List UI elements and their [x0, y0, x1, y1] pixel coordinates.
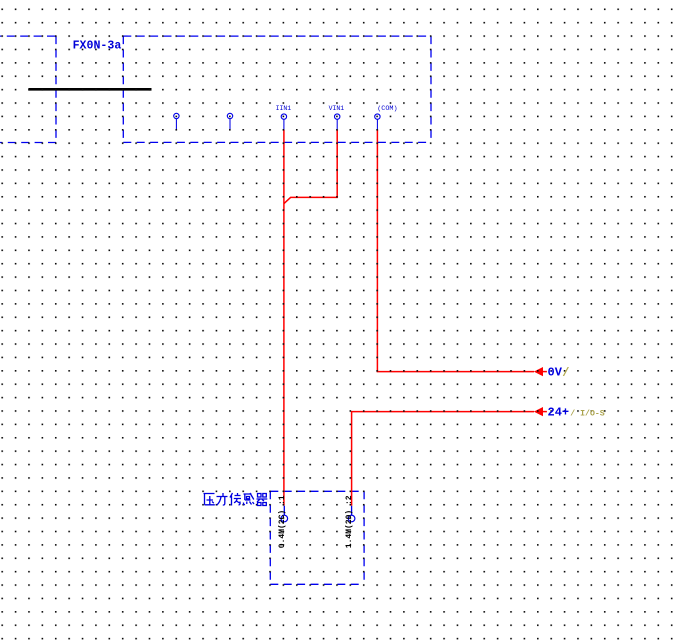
- svg-text:/ I/O-S: / I/O-S: [570, 409, 604, 419]
- wire 24+ to sensor pin 2: [352, 412, 534, 506]
- power port arrow 24+: [534, 407, 547, 416]
- svg-text:0V: 0V: [548, 366, 563, 380]
- pin IIN1: [281, 114, 286, 130]
- pin P2 (unlabeled): [227, 113, 232, 130]
- sensor box 压力传感器: [270, 491, 364, 584]
- svg-text:FX0N-3a: FX0N-3a: [73, 39, 122, 52]
- pin P1 (unlabeled): [174, 113, 179, 130]
- svg-text:0.4M(2C) :1: 0.4M(2C) :1: [278, 495, 287, 548]
- svg-text:(COM): (COM): [377, 105, 397, 113]
- 力: [217, 493, 228, 505]
- 压: [204, 494, 215, 505]
- svg-text:VIN1: VIN1: [329, 105, 345, 112]
- wire VIN1 branch: [284, 130, 337, 204]
- svg-text:IIN1: IIN1: [276, 105, 292, 112]
- wire COM to 0V: [377, 130, 534, 372]
- module box (left, partial): [0, 36, 56, 142]
- sensor pin 1: [281, 506, 288, 522]
- module box FX0N-3a: [123, 36, 431, 142]
- svg-text:/: /: [562, 366, 569, 380]
- power port arrow 0V: [534, 367, 547, 376]
- wire IIN1 to sensor pin 1: [283, 130, 285, 506]
- label 压力传感器 (drawn glyphs): [204, 493, 268, 506]
- 传: [230, 493, 241, 506]
- sensor pin 2: [348, 506, 355, 522]
- 感: [243, 493, 254, 505]
- svg-text:1.4M(20) :2: 1.4M(20) :2: [345, 495, 354, 548]
- pin VIN1: [335, 114, 340, 130]
- svg-text:24+: 24+: [548, 406, 570, 420]
- pin COM: [375, 114, 380, 130]
- bus segment (thick black line): [28, 88, 151, 91]
- 器: [257, 494, 268, 506]
